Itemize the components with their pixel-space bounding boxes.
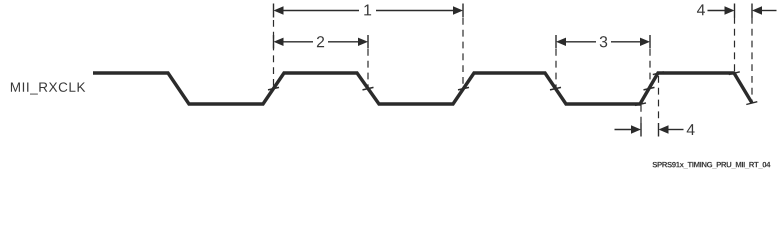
dashed reference line E at rising edge mid (3 right) <box>649 49 651 88</box>
dimension arrow 4 bottom (rise time), outside-pointing pair <box>615 129 633 131</box>
label 3 <box>600 36 607 47</box>
dimension arrow 1, right half <box>376 10 453 12</box>
dimension arrow 4 top (fall time), outside-pointing pair <box>708 10 727 12</box>
edge tick on falling edge (measurement point for 3 left) <box>550 87 561 90</box>
dimension arrow 3, right half <box>611 41 641 43</box>
edge tick at falling edge bottom end (top 4 right ref) <box>746 102 757 105</box>
dashed reference line D at falling edge mid (3 left) <box>555 49 557 88</box>
edge tick on rising edge (measurement point for 1,2) <box>268 87 279 90</box>
waveform MII_RXCLK clock <box>93 73 752 104</box>
edge tick on falling edge (measurement point for 2) <box>363 87 374 90</box>
edge tick at rising edge bottom corner (4 left ref) <box>635 103 646 106</box>
edge tick at falling edge top corner (top 4 left ref) <box>729 72 740 75</box>
dashed reference line H at falling edge top corner (4 top left) <box>734 17 736 73</box>
dimension arrow 2, right half <box>328 41 359 43</box>
dashed reference line F at rising edge bottom corner (4 bottom left) <box>640 105 642 123</box>
label 1 <box>364 5 371 16</box>
dashed reference line B at falling edge mid (2 right) <box>367 49 369 88</box>
label 4 (bottom) <box>687 124 695 135</box>
label 2 <box>317 36 324 47</box>
dashed reference line A at first rising edge mid <box>273 20 275 88</box>
figure tag SPRS91x_TIMING_PRU_MII_RT_04 <box>652 162 770 168</box>
dashed reference line C at rising edge mid (1 right) <box>462 18 464 88</box>
dashed reference line G at rising edge top corner (4 bottom right) <box>658 76 660 123</box>
dimension arrow 1 (clock period), left half <box>273 4 275 18</box>
dashed reference line I at falling edge bottom end (4 top right) <box>751 17 753 102</box>
dimension arrow 3 (low pulse width), left half <box>555 35 557 49</box>
edge tick on rising edge (measurement point for 1 right) <box>458 87 469 90</box>
label 4 (top) <box>697 4 705 15</box>
edge tick at rising edge top corner (4 right ref) <box>653 72 664 75</box>
edge tick on rising edge (measurement point for 3 right) <box>644 87 655 90</box>
signal label MII_RXCLK <box>11 82 85 94</box>
dimension arrow 2 (high pulse width), left half <box>273 35 275 49</box>
